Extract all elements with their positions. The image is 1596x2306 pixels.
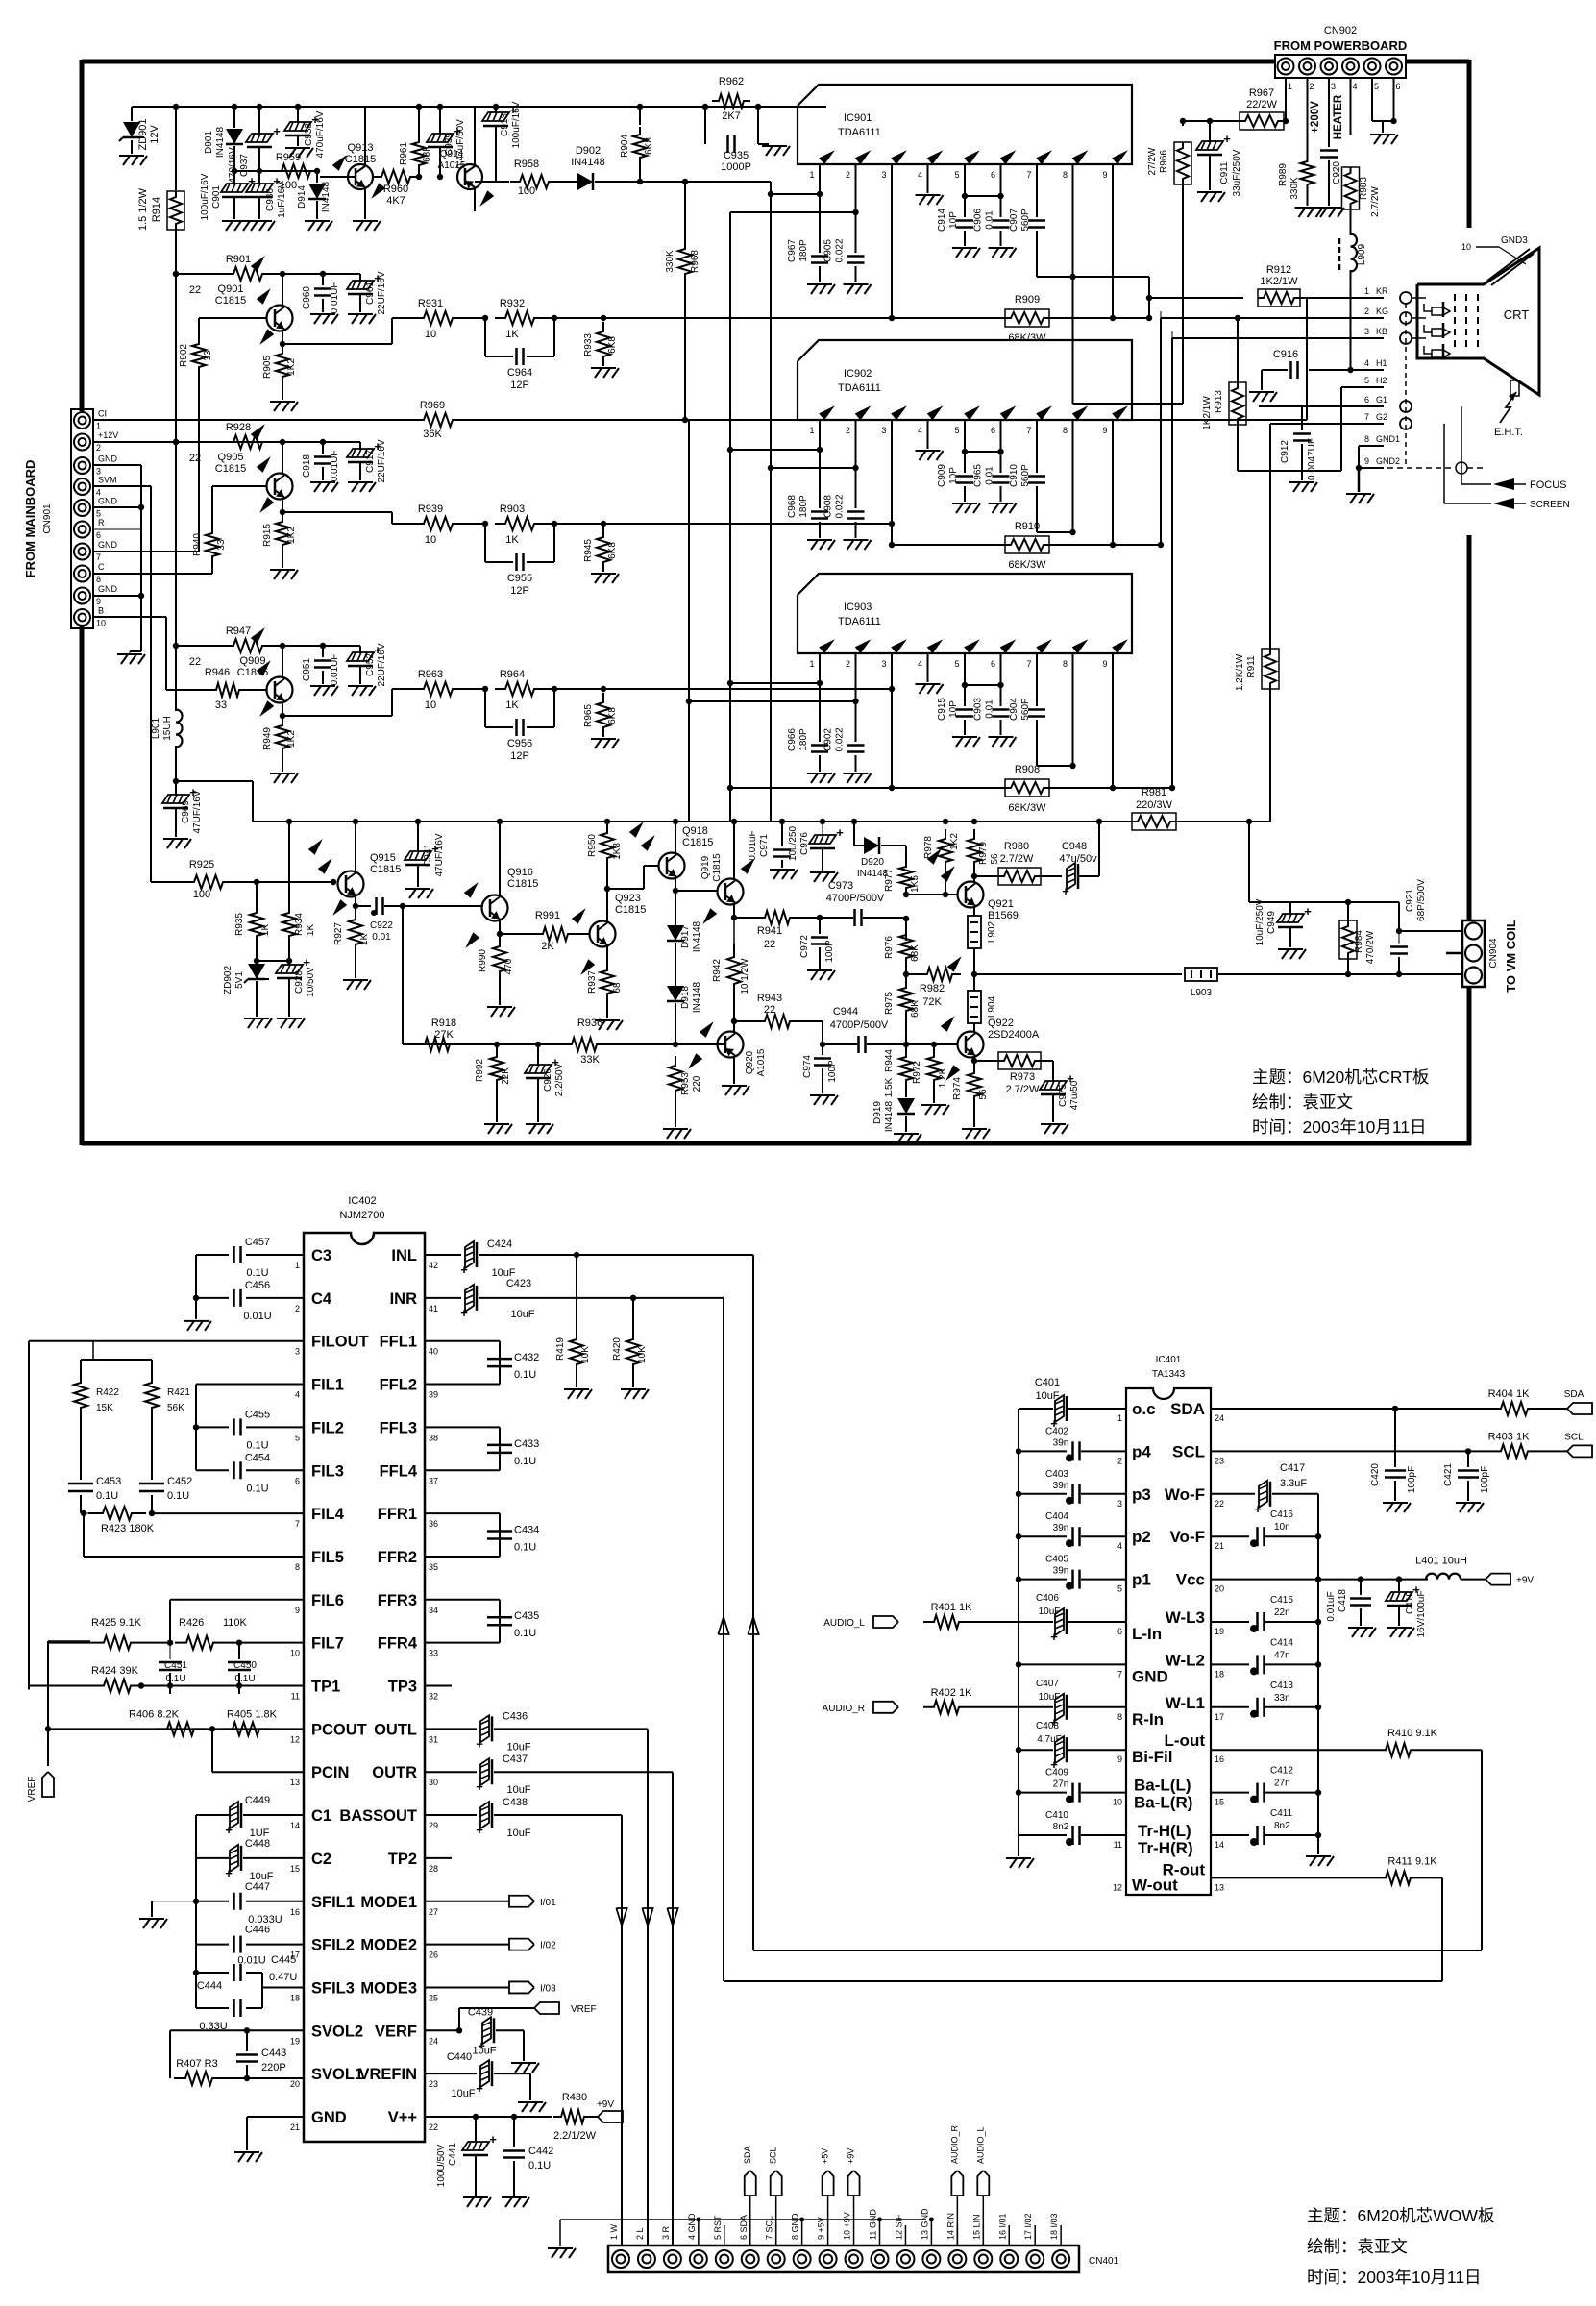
flag +9V at V++ bbox=[598, 2111, 623, 2122]
mark near L902 bbox=[947, 956, 962, 972]
svg-text:1: 1 bbox=[295, 1261, 300, 1270]
svg-text:C948: C948 bbox=[1062, 841, 1087, 852]
IC903 pin5 node bbox=[964, 653, 966, 706]
svg-text:C1815: C1815 bbox=[215, 295, 246, 307]
svg-text:TA1343: TA1343 bbox=[1152, 1369, 1186, 1380]
wire TP2 stub bbox=[425, 1857, 452, 1859]
ground below C419 bbox=[1387, 1627, 1412, 1629]
svg-text:C423: C423 bbox=[506, 1278, 531, 1289]
svg-text:0.1U: 0.1U bbox=[234, 1674, 255, 1684]
capacitor C442 0.1U bbox=[513, 2117, 515, 2147]
svg-text:IN4148: IN4148 bbox=[215, 126, 226, 158]
ground below R972 bbox=[921, 1104, 946, 1106]
svg-text:10uF: 10uF bbox=[506, 1784, 530, 1796]
svg-text:12 SIF: 12 SIF bbox=[894, 2214, 903, 2240]
svg-text:16: 16 bbox=[1215, 1754, 1224, 1764]
ground below C903 bbox=[989, 736, 1014, 738]
svg-text:C446: C446 bbox=[245, 1925, 270, 1936]
svg-text:28: 28 bbox=[429, 1864, 438, 1874]
transistor Q915 C1815 bbox=[338, 871, 364, 897]
svg-text:R911: R911 bbox=[1246, 655, 1257, 678]
wire C row CN901 pin8 bbox=[93, 573, 212, 575]
transistor Q914 A1015 bbox=[457, 164, 482, 189]
svg-text:GND: GND bbox=[98, 497, 118, 506]
wire FIL4 row bbox=[152, 1512, 304, 1514]
capacitor C446 0.01U bbox=[196, 1944, 229, 1946]
wire collector node row bbox=[275, 645, 360, 647]
svg-text:SDA: SDA bbox=[1170, 1400, 1205, 1418]
svg-text:1K: 1K bbox=[505, 699, 519, 711]
arrows down on W L R wires bbox=[616, 1908, 626, 1926]
svg-text:4: 4 bbox=[1353, 82, 1358, 91]
wire base Q901 to R902 bbox=[199, 317, 267, 319]
svg-text:时间：2003年10月11日: 时间：2003年10月11日 bbox=[1307, 2268, 1482, 2287]
svg-text:+: + bbox=[1254, 1502, 1262, 1516]
svg-text:56: 56 bbox=[990, 853, 1000, 865]
resistor R411 9.1K bbox=[1375, 1871, 1421, 1884]
svg-text:19: 19 bbox=[1215, 1627, 1224, 1636]
svg-text:R910: R910 bbox=[1015, 521, 1040, 532]
svg-text:14: 14 bbox=[1215, 1840, 1224, 1850]
svg-text:R909: R909 bbox=[1015, 294, 1040, 306]
svg-text:R972: R972 bbox=[912, 1061, 922, 1084]
svg-text:C922: C922 bbox=[370, 920, 393, 931]
svg-text:41: 41 bbox=[429, 1304, 438, 1313]
svg-text:7: 7 bbox=[1026, 659, 1031, 669]
svg-text:L909: L909 bbox=[1357, 243, 1367, 265]
svg-text:2: 2 bbox=[1364, 307, 1369, 316]
ground below Q920 bbox=[722, 1085, 747, 1087]
wire C449/C448 left bus bbox=[195, 1815, 197, 1945]
resistor R931 10 bbox=[413, 311, 463, 325]
svg-text:C969: C969 bbox=[181, 800, 191, 823]
capacitor C432 0.1U bbox=[487, 1358, 512, 1361]
resistor R419 10K vertical bbox=[576, 1255, 577, 1329]
IC901 pin stubs and numbers bbox=[819, 164, 821, 181]
svg-text:2SD2400A: 2SD2400A bbox=[988, 1029, 1040, 1041]
resistor R967 22/2W boxed bbox=[1240, 112, 1284, 130]
svg-text:Q920: Q920 bbox=[745, 1050, 755, 1074]
svg-text:GND: GND bbox=[1132, 1667, 1168, 1685]
svg-text:1K2: 1K2 bbox=[286, 527, 297, 544]
transistor Q920 A1015 bbox=[718, 1032, 744, 1058]
ground below C420 bbox=[1383, 1502, 1408, 1504]
resistor R942 10 1/2W vertical bbox=[727, 944, 741, 997]
capacitor C937 470/16V bbox=[258, 107, 260, 135]
svg-text:FIL2: FIL2 bbox=[311, 1419, 344, 1436]
svg-text:0.1U: 0.1U bbox=[246, 1483, 268, 1494]
svg-text:SVM: SVM bbox=[98, 476, 117, 485]
wire GND1 pin8 bbox=[1359, 445, 1384, 447]
capacitor C455 0.1U bbox=[193, 1424, 199, 1430]
resistor R421 56K vertical bbox=[151, 1360, 153, 1371]
svg-text:C433: C433 bbox=[514, 1438, 539, 1450]
svg-text:0.01: 0.01 bbox=[372, 932, 391, 943]
collector Q915 to rail bbox=[355, 822, 356, 871]
wire VM row to CN904 bbox=[974, 973, 1182, 975]
diode D914 IN4148 bbox=[316, 171, 318, 183]
IC901 pin arrows bbox=[819, 150, 835, 164]
svg-text:27n: 27n bbox=[1053, 1779, 1069, 1790]
svg-text:C413: C413 bbox=[1270, 1680, 1293, 1691]
svg-text:0.1U: 0.1U bbox=[514, 1628, 536, 1639]
svg-text:25: 25 bbox=[429, 1993, 438, 2002]
svg-text:C902: C902 bbox=[823, 728, 834, 751]
svg-text:0.47U: 0.47U bbox=[269, 1972, 297, 1983]
svg-text:1K: 1K bbox=[505, 329, 519, 340]
svg-text:+: + bbox=[476, 1823, 483, 1837]
capacitor C952 22UF/16V bbox=[359, 646, 361, 653]
wire IC902 pin2 link bbox=[771, 467, 856, 469]
svg-text:C974: C974 bbox=[802, 1055, 813, 1078]
IC902 pin6 node bbox=[1000, 420, 1002, 473]
svg-text:Q916: Q916 bbox=[507, 867, 533, 878]
svg-text:W-L3: W-L3 bbox=[1166, 1608, 1205, 1627]
svg-text:0.01: 0.01 bbox=[985, 466, 995, 485]
svg-text:0.1U: 0.1U bbox=[246, 1439, 268, 1451]
capacitor C408 4.7uF bbox=[1016, 1747, 1021, 1753]
ground below C972 bbox=[807, 969, 832, 971]
svg-text:R420: R420 bbox=[612, 1337, 623, 1361]
capacitor C938 470uF/16V bbox=[297, 107, 299, 123]
wire R-out pin13 R411 bbox=[1211, 1877, 1375, 1878]
open arrows on INL/INR verticals bbox=[748, 1617, 758, 1634]
IC902 pin4 ground bbox=[927, 420, 929, 449]
svg-text:5: 5 bbox=[96, 509, 101, 519]
svg-text:+: + bbox=[836, 825, 844, 840]
resistor R903 1K bbox=[463, 523, 485, 525]
svg-text:68K: 68K bbox=[910, 1000, 921, 1018]
svg-text:D918: D918 bbox=[680, 986, 691, 1009]
capacitor C973 4700P/500V bbox=[853, 909, 856, 926]
capacitor C911 33uF/250V bbox=[1209, 121, 1211, 142]
svg-text:15: 15 bbox=[290, 1864, 300, 1874]
svg-text:C917: C917 bbox=[365, 450, 376, 473]
collector Q919 to rail bbox=[733, 822, 735, 879]
svg-text:C941: C941 bbox=[423, 844, 433, 867]
svg-text:C4: C4 bbox=[311, 1290, 332, 1308]
wire feedback blue R908 output bbox=[1049, 787, 1172, 789]
svg-text:7: 7 bbox=[1026, 170, 1031, 180]
capacitor C420 100pF bbox=[1394, 1409, 1396, 1467]
svg-text:C452: C452 bbox=[167, 1476, 192, 1487]
svg-text:330K: 330K bbox=[1289, 177, 1300, 200]
ground below bbox=[139, 1918, 164, 1920]
capacitor C440 10uF at VREFIN bbox=[425, 2073, 477, 2074]
svg-text:C444: C444 bbox=[197, 1980, 222, 1992]
svg-text:C451: C451 bbox=[164, 1660, 187, 1671]
svg-text:R913: R913 bbox=[1214, 390, 1224, 413]
svg-text:1.5K: 1.5K bbox=[884, 1077, 895, 1097]
svg-text:C416: C416 bbox=[1270, 1509, 1293, 1520]
svg-text:R939: R939 bbox=[418, 503, 443, 515]
svg-text:36: 36 bbox=[429, 1519, 438, 1529]
flag +5V above CN401 pin9 bbox=[827, 2196, 829, 2245]
svg-text:Q921: Q921 bbox=[988, 898, 1014, 910]
ground wire at SFIL1 row bbox=[152, 1901, 196, 1902]
svg-text:PCIN: PCIN bbox=[311, 1764, 349, 1781]
svg-text:C955: C955 bbox=[507, 573, 532, 584]
svg-text:AUDIO_L: AUDIO_L bbox=[975, 2126, 985, 2164]
svg-text:22K: 22K bbox=[501, 1067, 511, 1085]
ground below C440 bbox=[518, 2101, 543, 2103]
wire C921 row to CN904 pin1 bbox=[1399, 930, 1462, 932]
svg-text:220: 220 bbox=[692, 1075, 702, 1092]
resistor R914 1.5 1/2W bbox=[175, 107, 177, 190]
svg-text:C968: C968 bbox=[787, 495, 798, 518]
svg-text:C938: C938 bbox=[304, 123, 314, 146]
svg-text:C437: C437 bbox=[503, 1754, 528, 1765]
svg-text:Q923: Q923 bbox=[615, 893, 641, 904]
svg-text:32: 32 bbox=[429, 1692, 438, 1702]
wire FIL6 row bbox=[170, 1599, 304, 1601]
svg-text:IC902: IC902 bbox=[844, 368, 872, 380]
svg-text:C419: C419 bbox=[1405, 1591, 1415, 1614]
EHT terminal bbox=[1510, 380, 1519, 396]
svg-text:TP2: TP2 bbox=[388, 1851, 417, 1868]
svg-text:IN4148: IN4148 bbox=[884, 1100, 895, 1132]
ground below C968 bbox=[807, 539, 832, 541]
svg-text:0.01: 0.01 bbox=[985, 699, 995, 719]
svg-text:C415: C415 bbox=[1270, 1595, 1293, 1606]
capacitor C967 180P bbox=[811, 255, 828, 258]
svg-text:100uF/16V: 100uF/16V bbox=[511, 101, 522, 148]
svg-text:C424: C424 bbox=[487, 1239, 512, 1250]
capacitor C922 0.01 bbox=[356, 905, 371, 907]
ground right of C935 bbox=[758, 143, 769, 145]
svg-text:C952: C952 bbox=[365, 653, 376, 676]
svg-text:R963: R963 bbox=[418, 669, 443, 680]
svg-text:C928: C928 bbox=[294, 970, 305, 994]
wire L-out pin16 R410 bbox=[1211, 1749, 1375, 1751]
wire blue feedback row to IC903 bbox=[615, 688, 892, 690]
capacitor C434 0.1U bbox=[487, 1530, 512, 1533]
svg-text:18 I/03: 18 I/03 bbox=[1049, 2213, 1059, 2240]
svg-text:R992: R992 bbox=[475, 1059, 485, 1082]
svg-text:INR: INR bbox=[390, 1290, 418, 1308]
svg-text:SCL: SCL bbox=[1172, 1442, 1205, 1460]
svg-text:10/50V: 10/50V bbox=[306, 967, 316, 997]
resistor R935 1K vertical bbox=[256, 882, 258, 903]
svg-text:SFIL2: SFIL2 bbox=[311, 1937, 355, 1954]
svg-text:5: 5 bbox=[1117, 1584, 1122, 1594]
svg-text:27: 27 bbox=[429, 1907, 438, 1917]
svg-text:B1569: B1569 bbox=[988, 910, 1019, 921]
svg-text:R942: R942 bbox=[712, 959, 723, 982]
svg-text:15UH: 15UH bbox=[162, 716, 173, 741]
ground below R965 bbox=[591, 738, 616, 740]
capacitor C966 180P bbox=[811, 744, 828, 747]
svg-text:FFL3: FFL3 bbox=[380, 1419, 417, 1436]
svg-text:10uF: 10uF bbox=[506, 1828, 530, 1839]
svg-text:7: 7 bbox=[96, 552, 101, 562]
wire H1 line bbox=[1347, 367, 1353, 373]
svg-text:AUDIO_R: AUDIO_R bbox=[949, 2124, 959, 2164]
svg-text:3: 3 bbox=[881, 170, 886, 180]
svg-text:2.7/2W: 2.7/2W bbox=[1000, 853, 1034, 865]
svg-text:FOCUS: FOCUS bbox=[1530, 479, 1567, 491]
svg-text:FFL2: FFL2 bbox=[380, 1377, 417, 1394]
wire C949 top row bbox=[1249, 901, 1399, 903]
svg-text:6: 6 bbox=[96, 530, 101, 540]
resistor R964 1K bbox=[463, 688, 485, 690]
svg-text:8: 8 bbox=[1364, 434, 1369, 444]
svg-text:C449: C449 bbox=[245, 1795, 270, 1806]
resistor R406 8.2K bbox=[156, 1722, 206, 1735]
svg-text:C918: C918 bbox=[302, 454, 312, 478]
svg-text:5: 5 bbox=[954, 426, 959, 435]
svg-text:12: 12 bbox=[1113, 1882, 1122, 1892]
svg-text:R944: R944 bbox=[884, 1049, 895, 1072]
svg-text:C906: C906 bbox=[973, 209, 984, 232]
svg-text:22n: 22n bbox=[1274, 1607, 1290, 1618]
svg-text:L401 10uH: L401 10uH bbox=[1415, 1556, 1467, 1567]
wire Q921 collector to R980 row bbox=[973, 876, 975, 882]
svg-text:ZD902: ZD902 bbox=[223, 966, 233, 994]
svg-text:GND1: GND1 bbox=[1376, 434, 1400, 444]
wire R936 row (feedback) bbox=[403, 1043, 563, 1045]
svg-text:R-In: R-In bbox=[1132, 1710, 1164, 1729]
svg-text:C405: C405 bbox=[1045, 1555, 1068, 1565]
svg-text:C2: C2 bbox=[311, 1851, 331, 1868]
svg-text:D917: D917 bbox=[680, 925, 691, 948]
svg-text:p2: p2 bbox=[1132, 1528, 1151, 1546]
svg-text:10: 10 bbox=[425, 534, 436, 546]
svg-text:560P: 560P bbox=[1020, 698, 1031, 721]
ground below GND2 bbox=[1346, 493, 1371, 495]
svg-text:R973: R973 bbox=[1010, 1071, 1035, 1083]
svg-text:9: 9 bbox=[1102, 426, 1107, 435]
wire emitter Q916 to R991 bbox=[500, 933, 534, 935]
ground below C442 bbox=[502, 2196, 527, 2198]
svg-text:2.7/2W: 2.7/2W bbox=[1370, 186, 1381, 217]
svg-text:2K7: 2K7 bbox=[722, 110, 741, 122]
capacitor C960 0.01UF bbox=[322, 274, 324, 285]
resistor R978 1K2 vertical bbox=[943, 819, 948, 824]
svg-text:D902: D902 bbox=[576, 145, 601, 157]
svg-text:VERF: VERF bbox=[375, 2023, 417, 2040]
capacitor C939 0.47uF/50V bbox=[439, 107, 441, 135]
wire CN901 GND bus bbox=[93, 464, 141, 466]
svg-text:21: 21 bbox=[1215, 1541, 1224, 1551]
svg-text:FIL5: FIL5 bbox=[311, 1549, 344, 1566]
svg-text:22: 22 bbox=[189, 656, 201, 668]
svg-text:0.0047UF: 0.0047UF bbox=[1307, 438, 1317, 480]
capacitor C965 0.01 bbox=[993, 475, 1010, 478]
connector CN902 FROM POWERBOARD bbox=[1275, 55, 1406, 78]
svg-text:R982: R982 bbox=[920, 983, 945, 994]
capacitor C441 100U/50V bbox=[475, 2117, 477, 2141]
svg-text:1: 1 bbox=[1117, 1413, 1122, 1423]
collector Q916 to rail bbox=[499, 822, 501, 895]
capacitor C437 10uF on OUTR bbox=[425, 1771, 477, 1773]
ground below C901 bbox=[222, 220, 247, 222]
svg-text:C944: C944 bbox=[833, 1006, 858, 1018]
capacitor C401 10uF bbox=[1055, 1395, 1064, 1422]
capacitor C450 0.1U vertical bbox=[238, 1643, 240, 1659]
resistor R968 330K vertical bbox=[684, 182, 686, 240]
IC901 pin9 wire bbox=[1112, 164, 1114, 318]
capacitor C457 0.1U bbox=[196, 1254, 229, 1256]
svg-text:10u/250: 10u/250 bbox=[788, 825, 798, 861]
svg-text:100P: 100P bbox=[827, 1060, 838, 1083]
svg-text:2.7/2W: 2.7/2W bbox=[1006, 1084, 1040, 1095]
svg-text:0.1U: 0.1U bbox=[96, 1490, 118, 1502]
green channel +12V tap bbox=[173, 439, 179, 445]
svg-text:56K: 56K bbox=[167, 1403, 184, 1413]
svg-text:CN902: CN902 bbox=[1324, 25, 1357, 37]
capacitor C906 0.01 bbox=[993, 219, 1010, 222]
svg-text:R931: R931 bbox=[418, 298, 443, 309]
svg-text:68K/3W: 68K/3W bbox=[1008, 802, 1046, 814]
inductor L903 boxed bbox=[1185, 968, 1217, 981]
ground below C941 bbox=[405, 888, 430, 890]
capacitor C961 22UF/16V bbox=[359, 274, 361, 282]
svg-text:6 SDA: 6 SDA bbox=[739, 2215, 749, 2240]
svg-text:KR: KR bbox=[1376, 286, 1388, 296]
resistor R962 2K7 / C935 1000P bbox=[685, 106, 826, 108]
wire SDA row bbox=[1211, 1408, 1489, 1410]
svg-text:C457: C457 bbox=[245, 1237, 270, 1248]
ground below C960 bbox=[310, 313, 335, 315]
wire R422/R421 top join to FILOUT bus bbox=[81, 1359, 152, 1361]
capacitor C949 10uF/250V bbox=[1289, 902, 1291, 913]
svg-text:0.01UF: 0.01UF bbox=[330, 654, 340, 686]
svg-text:C1815: C1815 bbox=[345, 154, 376, 165]
svg-text:470/2W: 470/2W bbox=[1365, 930, 1376, 964]
svg-text:6: 6 bbox=[295, 1476, 300, 1485]
vertical bus wires mid bbox=[688, 420, 690, 822]
svg-text:0.1U: 0.1U bbox=[165, 1674, 185, 1684]
resistor R908 68K/3W boxed bbox=[892, 787, 1005, 789]
wire collector node row bbox=[275, 441, 360, 443]
svg-text:100: 100 bbox=[280, 180, 297, 191]
inductor L909 bbox=[1351, 234, 1358, 272]
svg-text:R912: R912 bbox=[1266, 264, 1291, 276]
wire IC902 pin1 link bbox=[730, 449, 820, 451]
svg-text:22UF/16V: 22UF/16V bbox=[377, 271, 387, 314]
capacitor C928 10/50V bbox=[276, 965, 303, 973]
svg-text:10uF: 10uF bbox=[1035, 1390, 1059, 1402]
capacitor C912 0.0047UF bbox=[1301, 406, 1303, 430]
capacitor C444 0.33U bbox=[196, 2007, 229, 2009]
blue channel node bbox=[176, 645, 221, 647]
svg-text:10uF: 10uF bbox=[451, 2088, 475, 2099]
svg-text:R423 180K: R423 180K bbox=[101, 1523, 155, 1534]
svg-text:SFIL1: SFIL1 bbox=[311, 1894, 355, 1911]
svg-text:7: 7 bbox=[1364, 412, 1369, 422]
IC902 pin stubs and numbers bbox=[819, 420, 821, 436]
resistor R904 6K8 vertical bbox=[639, 107, 641, 125]
svg-text:C975: C975 bbox=[1058, 1084, 1068, 1107]
wire Q921 emitter to L902 bbox=[973, 907, 975, 916]
svg-text:+9V: +9V bbox=[1516, 1576, 1534, 1586]
ground below right bus IC401 bbox=[1317, 1836, 1319, 1854]
svg-text:2.2/50V: 2.2/50V bbox=[554, 1063, 565, 1096]
svg-text:绘制：袁亚文: 绘制：袁亚文 bbox=[1307, 2237, 1408, 2256]
svg-text:2: 2 bbox=[846, 426, 850, 435]
svg-text:C440: C440 bbox=[447, 2051, 472, 2063]
svg-text:C407: C407 bbox=[1036, 1679, 1059, 1689]
svg-text:8: 8 bbox=[96, 575, 101, 584]
wire B row CN901 pin10 bbox=[93, 616, 166, 618]
resistor R918 27K bbox=[414, 1038, 460, 1051]
svg-text:6: 6 bbox=[991, 170, 995, 180]
svg-text:0.1U: 0.1U bbox=[167, 1490, 189, 1502]
capacitor C955 12P bbox=[484, 524, 486, 562]
wire IC901 pin1 link bbox=[771, 193, 820, 195]
svg-text:SDA: SDA bbox=[743, 2146, 752, 2164]
